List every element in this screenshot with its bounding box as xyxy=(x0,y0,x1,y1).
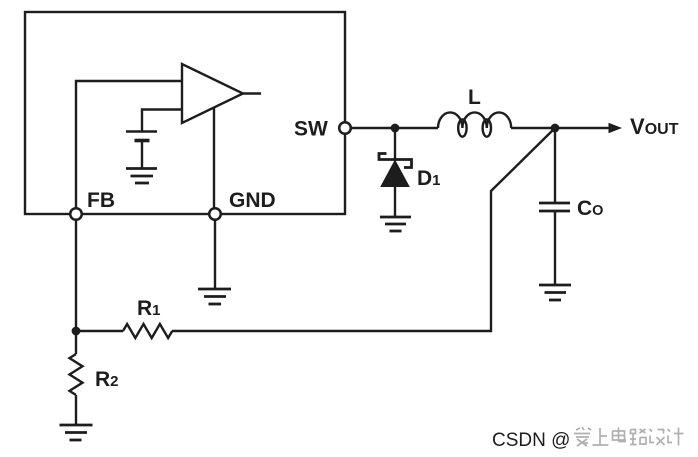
ground (Co) xyxy=(539,285,571,300)
node divider junction xyxy=(72,327,81,336)
glyph ai xyxy=(574,427,591,446)
glyph lu xyxy=(630,429,646,445)
wire op-amp inverting input to reference xyxy=(142,110,182,132)
pin GND xyxy=(209,208,221,220)
node output junction xyxy=(551,124,560,133)
wire feedback diagonal from output node xyxy=(172,128,555,331)
glyph she xyxy=(650,429,665,445)
node SW junction xyxy=(391,124,400,133)
svg-text:VOUT: VOUT xyxy=(630,114,679,139)
svg-text:GND: GND xyxy=(229,189,276,212)
wire op-amp output stub xyxy=(243,92,261,94)
pin SW xyxy=(339,122,351,134)
glyph dian xyxy=(613,428,626,442)
diode D1 anode triangle xyxy=(381,161,409,187)
diode D1 schottky cathode xyxy=(379,154,412,168)
ground (D1) xyxy=(380,217,411,231)
op-amp U1 xyxy=(182,64,243,123)
svg-text:D1: D1 xyxy=(417,167,441,190)
svg-text:CO: CO xyxy=(577,197,603,220)
capacitor Co plates xyxy=(539,203,570,211)
resistor R2 xyxy=(70,354,83,395)
wire op-amp lower edge to GND pin xyxy=(213,108,215,214)
inductor L xyxy=(438,112,511,136)
wire output arrowhead xyxy=(609,123,623,134)
wire junction to diode xyxy=(394,128,396,161)
reference battery (short plate) xyxy=(135,139,150,143)
wire output node to Co xyxy=(554,128,556,203)
wire SW pin to inductor xyxy=(345,127,438,129)
ground (internal reference) xyxy=(126,169,157,184)
reference battery (long plate) xyxy=(126,130,157,132)
svg-text:CSDN @: CSDN @ xyxy=(492,430,570,451)
glyph shang xyxy=(593,428,609,445)
wire diode to ground xyxy=(394,186,396,217)
wire GND pin to ground xyxy=(214,214,216,289)
watermark CJK glyphs xyxy=(574,427,684,446)
svg-text:L: L xyxy=(468,86,481,109)
wire node to R1 xyxy=(76,330,123,332)
pin FB xyxy=(70,208,82,220)
svg-text:R2: R2 xyxy=(95,368,119,391)
wire battery to ground xyxy=(141,141,143,169)
IC U1 outline xyxy=(25,12,345,214)
resistor R1 xyxy=(123,324,172,338)
ground (GND pin) xyxy=(198,289,231,304)
glyph ji xyxy=(668,428,684,446)
svg-text:FB: FB xyxy=(87,189,115,212)
svg-text:R1: R1 xyxy=(137,297,161,320)
wire R2 to ground xyxy=(75,395,77,425)
wire FB to op-amp non-inverting input xyxy=(76,81,182,214)
svg-text:SW: SW xyxy=(294,118,328,141)
ground (R2) xyxy=(60,425,93,440)
wire inductor to output arrow xyxy=(511,127,611,129)
wire Co to ground xyxy=(554,211,556,285)
wire FB pin down to divider node xyxy=(75,214,77,354)
